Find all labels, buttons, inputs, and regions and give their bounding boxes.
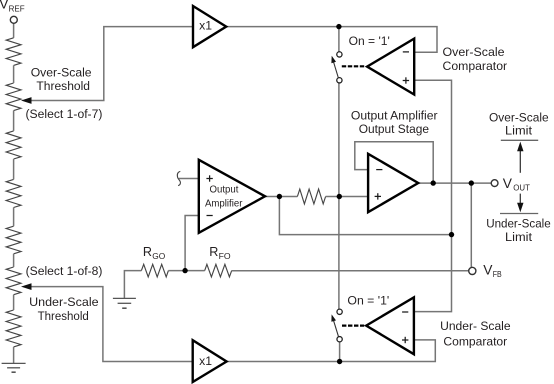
svg-text:Under-Scale: Under-Scale [486,216,551,230]
svg-text:Under-Scale: Under-Scale [29,295,99,309]
svg-text:On = '1': On = '1' [349,34,390,48]
svg-text:Output Amplifier: Output Amplifier [351,109,438,123]
svg-text:Limit: Limit [505,230,533,244]
svg-text:(Select 1-of-8): (Select 1-of-8) [26,264,103,278]
svg-text:Threshold: Threshold [38,309,89,323]
svg-text:V: V [503,176,513,191]
svg-text:Output: Output [210,185,239,196]
svg-text:(Select 1-of-7): (Select 1-of-7) [26,107,103,121]
svg-text:GO: GO [152,252,165,261]
svg-text:x1: x1 [199,19,212,33]
svg-text:On = '1': On = '1' [347,294,389,308]
svg-text:Output Stage: Output Stage [359,122,430,136]
svg-text:Threshold: Threshold [36,79,90,93]
svg-text:REF: REF [9,4,25,13]
svg-text:Over-Scale: Over-Scale [489,110,549,124]
svg-text:Over-Scale: Over-Scale [31,65,92,79]
svg-text:FO: FO [219,252,231,261]
svg-text:FB: FB [493,270,502,279]
svg-text:Comparator: Comparator [443,335,507,349]
svg-text:Amplifier: Amplifier [205,198,243,209]
svg-text:x1: x1 [199,354,212,368]
svg-text:Limit: Limit [505,124,533,138]
svg-text:Comparator: Comparator [443,59,508,73]
svg-text:Over-Scale: Over-Scale [443,45,505,59]
svg-text:R: R [209,245,218,259]
svg-text:OUT: OUT [513,184,530,193]
svg-text:R: R [143,245,152,259]
svg-text:Under- Scale: Under- Scale [440,319,511,333]
